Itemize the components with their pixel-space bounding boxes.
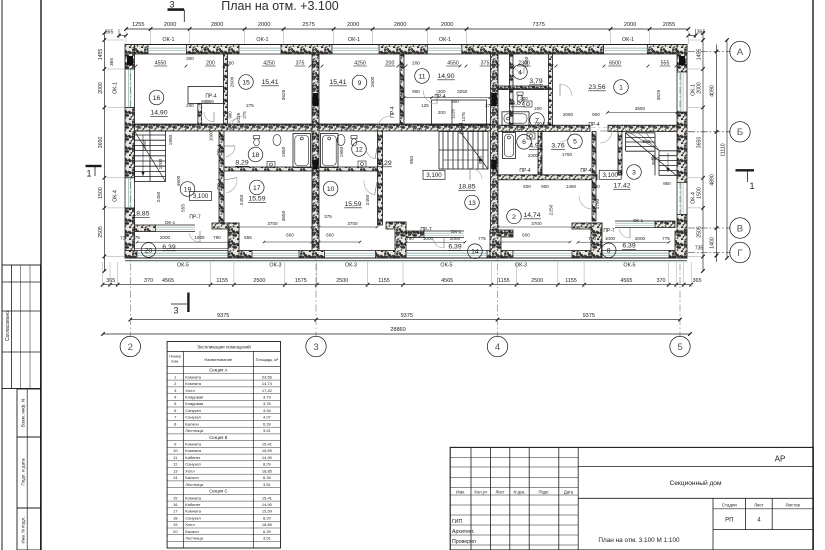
svg-text:Санузел: Санузел xyxy=(185,462,201,467)
svg-text:3700: 3700 xyxy=(531,221,542,226)
wall B horizontal xyxy=(319,124,491,131)
wall between rooms 12/10 xyxy=(319,167,378,171)
bathtub section C xyxy=(293,134,311,168)
svg-text:14: 14 xyxy=(173,475,178,480)
title block xyxy=(450,447,813,550)
svg-text:15,41: 15,41 xyxy=(261,79,278,86)
room 8 loggia xyxy=(601,243,616,258)
storeroom 4 bottom wall xyxy=(498,86,552,90)
svg-text:Кабинет: Кабинет xyxy=(185,455,200,460)
svg-text:Кабинет: Кабинет xyxy=(185,502,200,507)
room 16 kabinet xyxy=(149,90,164,105)
svg-text:N док.: N док. xyxy=(514,489,526,494)
svg-text:План на отм. 3.100 М 1:100: План на отм. 3.100 М 1:100 xyxy=(598,537,680,544)
closet room 11 xyxy=(432,100,487,125)
svg-text:365: 365 xyxy=(109,58,115,66)
svg-text:Санузел: Санузел xyxy=(185,415,201,420)
svg-text:790: 790 xyxy=(588,236,596,241)
svg-text:3,79: 3,79 xyxy=(529,78,542,85)
svg-text:20: 20 xyxy=(173,529,178,534)
svg-text:3625: 3625 xyxy=(656,89,662,100)
right exterior wall piers xyxy=(677,45,687,73)
room 12 sanuzel xyxy=(352,142,367,157)
room 18 sanuzel xyxy=(248,147,263,162)
svg-text:1155: 1155 xyxy=(565,278,577,284)
svg-text:3625: 3625 xyxy=(281,89,287,100)
svg-text:3: 3 xyxy=(313,342,318,353)
explication table xyxy=(167,342,280,549)
svg-text:18,85: 18,85 xyxy=(262,468,273,473)
svg-text:4890: 4890 xyxy=(710,174,716,186)
svg-text:3: 3 xyxy=(169,0,174,10)
room 3 hall xyxy=(627,165,642,180)
svg-text:2450: 2450 xyxy=(365,194,371,205)
svg-text:2,30: 2,30 xyxy=(543,121,552,126)
elevation boxes 3.100 xyxy=(190,192,212,201)
svg-text:4250: 4250 xyxy=(354,61,366,67)
svg-text:900: 900 xyxy=(592,112,600,117)
svg-text:Секционный дом: Секционный дом xyxy=(669,479,721,487)
door room11 xyxy=(423,90,437,104)
svg-text:200: 200 xyxy=(520,96,528,101)
svg-text:ОК-3: ОК-3 xyxy=(345,262,357,268)
top sub dims 365 xyxy=(119,35,126,37)
door hall C to 17 xyxy=(226,178,237,193)
svg-text:600: 600 xyxy=(523,184,531,189)
svg-text:Санузел: Санузел xyxy=(185,408,201,413)
bottom overall dim 28860 xyxy=(103,333,690,335)
svg-text:3650: 3650 xyxy=(697,137,703,149)
svg-text:14,90: 14,90 xyxy=(437,73,454,80)
svg-text:Подп.: Подп. xyxy=(538,489,549,494)
svg-text:28860: 28860 xyxy=(390,327,406,333)
svg-text:Кладовая: Кладовая xyxy=(185,395,203,400)
top dimension chain xyxy=(126,28,688,30)
svg-text:Лестница: Лестница xyxy=(185,536,203,541)
building bottom slab edge xyxy=(125,257,687,259)
svg-text:Лист: Лист xyxy=(496,489,505,494)
svg-text:ПР-7: ПР-7 xyxy=(420,227,432,233)
svg-text:1000: 1000 xyxy=(423,236,434,241)
svg-text:ГИП: ГИП xyxy=(452,519,463,525)
hall C partition xyxy=(219,131,224,225)
svg-text:Балкон: Балкон xyxy=(185,475,198,480)
svg-text:Проверил: Проверил xyxy=(452,539,476,545)
svg-text:200: 200 xyxy=(477,124,485,129)
svg-text:4565: 4565 xyxy=(441,278,453,284)
svg-text:900: 900 xyxy=(466,47,474,52)
svg-text:3550: 3550 xyxy=(635,106,646,111)
svg-text:125: 125 xyxy=(516,126,524,131)
svg-text:2050: 2050 xyxy=(563,112,574,117)
grid bubbles right A B V G xyxy=(730,41,750,61)
party wall section C/B xyxy=(312,54,319,251)
svg-text:4090: 4090 xyxy=(710,85,716,97)
svg-text:775: 775 xyxy=(132,235,140,240)
svg-text:1155: 1155 xyxy=(378,278,390,284)
svg-text:2: 2 xyxy=(128,342,133,353)
room 20 loggia xyxy=(141,243,156,258)
svg-text:ПР-4: ПР-4 xyxy=(519,168,531,174)
svg-text:6,39: 6,39 xyxy=(622,243,635,250)
svg-text:3800: 3800 xyxy=(400,89,406,100)
door room16 closet xyxy=(204,112,214,122)
loggia B side blocks xyxy=(386,222,406,229)
svg-text:Комната: Комната xyxy=(185,374,201,379)
corner riser top-left xyxy=(127,56,133,65)
loggia dim lines xyxy=(137,241,230,243)
svg-text:6,39: 6,39 xyxy=(263,421,272,426)
svg-text:Взам. инф. N: Взам. инф. N xyxy=(21,399,26,427)
vent shaft B/A lower xyxy=(491,160,497,170)
svg-text:2000: 2000 xyxy=(635,236,646,241)
interior dim lines bottom rooms xyxy=(228,226,312,228)
svg-text:15: 15 xyxy=(242,79,250,86)
svg-text:14,90: 14,90 xyxy=(150,110,167,117)
svg-text:15,41: 15,41 xyxy=(329,79,346,86)
svg-text:ПР-4: ПР-4 xyxy=(205,94,217,100)
loggia C back wall xyxy=(135,225,156,232)
svg-text:2600: 2600 xyxy=(230,76,236,87)
svg-text:555: 555 xyxy=(181,204,187,212)
svg-text:2800: 2800 xyxy=(211,22,223,28)
svg-text:3,79: 3,79 xyxy=(263,395,272,400)
svg-text:3250: 3250 xyxy=(457,89,468,94)
grid axis lines vertical xyxy=(129,46,131,337)
svg-text:Лестница: Лестница xyxy=(185,428,203,433)
svg-text:15,41: 15,41 xyxy=(262,495,273,500)
loggia B back wall xyxy=(406,231,424,238)
svg-text:200: 200 xyxy=(186,103,194,108)
stair section A xyxy=(626,132,656,134)
svg-text:1255: 1255 xyxy=(132,22,144,28)
partition bath12/room10 vs hall13 xyxy=(378,131,383,225)
svg-text:6: 6 xyxy=(522,139,526,146)
svg-text:12: 12 xyxy=(355,146,363,153)
svg-text:8,29: 8,29 xyxy=(263,515,272,520)
svg-text:1450: 1450 xyxy=(566,184,577,189)
svg-text:18: 18 xyxy=(173,515,178,520)
right extension lines xyxy=(688,39,701,41)
svg-text:Изм.: Изм. xyxy=(456,489,465,494)
svg-text:4250: 4250 xyxy=(263,61,275,67)
svg-text:РП: РП xyxy=(725,518,733,524)
door room1 xyxy=(560,84,572,96)
svg-text:ОК-5: ОК-5 xyxy=(623,262,635,268)
svg-text:1200: 1200 xyxy=(158,158,164,169)
door hall B to 10 xyxy=(364,180,375,195)
top exterior wall piers xyxy=(126,45,148,55)
svg-text:1000: 1000 xyxy=(194,235,205,240)
top extension lines xyxy=(125,31,127,44)
svg-text:3650: 3650 xyxy=(281,210,287,221)
left extension lines xyxy=(107,39,124,41)
svg-text:ОК-1: ОК-1 xyxy=(633,218,644,223)
svg-text:12: 12 xyxy=(173,462,178,467)
svg-text:1: 1 xyxy=(619,84,623,91)
svg-text:200: 200 xyxy=(226,61,234,66)
svg-text:2500: 2500 xyxy=(253,278,265,284)
svg-text:ОК-1: ОК-1 xyxy=(691,84,697,96)
svg-text:19: 19 xyxy=(184,186,192,193)
loggia C floor lines xyxy=(135,248,229,250)
toilet B xyxy=(351,136,357,146)
svg-text:11110: 11110 xyxy=(721,143,727,156)
svg-text:23,56: 23,56 xyxy=(588,84,605,91)
svg-text:16: 16 xyxy=(153,95,161,102)
svg-text:15,41: 15,41 xyxy=(262,442,273,447)
svg-text:1155: 1155 xyxy=(498,278,510,284)
svg-text:775: 775 xyxy=(662,236,670,241)
svg-text:275: 275 xyxy=(246,103,254,108)
svg-text:9375: 9375 xyxy=(401,313,413,319)
room 14 loggia xyxy=(468,244,483,259)
svg-text:200: 200 xyxy=(438,110,446,115)
svg-text:8,29: 8,29 xyxy=(235,160,248,167)
svg-text:2000: 2000 xyxy=(441,22,453,28)
vent shaft party wall B/A xyxy=(491,93,497,106)
grid bubbles bottom 2 3 4 5 xyxy=(120,336,140,356)
closet room 16 xyxy=(188,87,224,104)
svg-text:10: 10 xyxy=(173,448,178,453)
room 7 sanuzel xyxy=(530,113,545,128)
svg-text:15,59: 15,59 xyxy=(344,201,361,208)
svg-text:ПР-7: ПР-7 xyxy=(603,228,615,234)
svg-text:125: 125 xyxy=(421,103,429,108)
svg-text:365: 365 xyxy=(106,278,115,284)
svg-text:3650: 3650 xyxy=(98,137,104,149)
svg-text:ПР-4: ПР-4 xyxy=(580,168,592,174)
svg-text:950: 950 xyxy=(409,156,415,164)
svg-text:375: 375 xyxy=(324,214,332,219)
svg-text:ОК-4: ОК-4 xyxy=(691,192,697,204)
svg-text:Листов: Листов xyxy=(786,502,801,507)
svg-text:1500: 1500 xyxy=(697,187,703,199)
svg-text:1225: 1225 xyxy=(451,109,456,119)
svg-text:5: 5 xyxy=(573,139,577,146)
svg-text:2000: 2000 xyxy=(164,22,176,28)
door room15 xyxy=(231,116,243,128)
svg-text:1100: 1100 xyxy=(412,127,422,132)
svg-text:ОК-1: ОК-1 xyxy=(256,37,268,43)
sink B xyxy=(358,161,366,167)
svg-text:200: 200 xyxy=(386,61,395,67)
room 11 kabinet xyxy=(415,69,430,84)
door loggia C xyxy=(189,233,200,242)
svg-text:ОК-1: ОК-1 xyxy=(622,37,634,43)
right dimension chain 1 xyxy=(702,33,704,271)
svg-text:Г: Г xyxy=(737,248,743,259)
svg-text:275: 275 xyxy=(242,111,247,119)
svg-text:1650: 1650 xyxy=(524,56,530,67)
svg-text:3700: 3700 xyxy=(347,221,358,226)
svg-text:15: 15 xyxy=(173,495,178,500)
svg-text:2450: 2450 xyxy=(156,191,162,202)
svg-text:17: 17 xyxy=(173,509,178,514)
svg-text:900: 900 xyxy=(201,99,209,104)
approvals box (soglasovano) xyxy=(2,265,41,389)
svg-text:900: 900 xyxy=(451,99,459,104)
left dimension chain xyxy=(103,33,105,271)
svg-text:11: 11 xyxy=(418,73,425,80)
svg-text:пом.: пом. xyxy=(171,360,179,364)
bottom dimension chain row 2 (9375) xyxy=(130,319,680,321)
svg-text:900: 900 xyxy=(541,184,549,189)
loggia C side block xyxy=(212,223,239,229)
svg-text:А: А xyxy=(737,47,744,58)
svg-text:23,56: 23,56 xyxy=(262,374,273,379)
stair section C xyxy=(135,131,166,182)
svg-text:3,51: 3,51 xyxy=(263,428,272,433)
svg-text:14,90: 14,90 xyxy=(262,455,273,460)
door room5 xyxy=(560,131,571,142)
svg-text:950: 950 xyxy=(643,139,651,144)
svg-text:Инв. N подл.: Инв. N подл. xyxy=(21,516,26,543)
top windows OK-1 xyxy=(148,44,187,46)
svg-text:2450: 2450 xyxy=(239,194,245,205)
svg-text:Согласовано: Согласовано xyxy=(5,311,11,341)
svg-text:1500: 1500 xyxy=(98,187,104,199)
svg-text:18,85: 18,85 xyxy=(132,211,149,218)
svg-text:900: 900 xyxy=(227,111,232,119)
wall between rooms 18/17 xyxy=(224,167,312,171)
svg-text:ОК-3: ОК-3 xyxy=(515,262,527,268)
svg-text:2055: 2055 xyxy=(663,22,675,28)
svg-text:ОК-1: ОК-1 xyxy=(165,220,176,225)
svg-text:2500: 2500 xyxy=(336,278,348,284)
svg-text:600: 600 xyxy=(286,233,294,238)
svg-text:2000: 2000 xyxy=(160,235,171,240)
svg-text:15,59: 15,59 xyxy=(262,448,273,453)
toilet A room 7 xyxy=(517,92,523,102)
svg-text:4,07: 4,07 xyxy=(511,100,524,107)
sink A room 6 xyxy=(527,133,535,139)
svg-text:8: 8 xyxy=(607,248,611,255)
svg-text:1950: 1950 xyxy=(281,146,287,157)
drawing frame left line xyxy=(40,0,42,550)
room 1 bottom wall xyxy=(498,125,590,131)
door room2 xyxy=(579,196,592,209)
svg-text:Секция С: Секция С xyxy=(209,489,227,494)
svg-text:ОК-1: ОК-1 xyxy=(439,37,451,43)
svg-text:6,39: 6,39 xyxy=(162,244,175,251)
svg-text:2000: 2000 xyxy=(347,22,359,28)
svg-text:2000: 2000 xyxy=(624,22,636,28)
loggia glazing OK-5 xyxy=(137,250,230,252)
svg-text:ПР-4: ПР-4 xyxy=(588,122,600,128)
svg-text:7375: 7375 xyxy=(532,22,544,28)
svg-text:Балкон: Балкон xyxy=(185,421,198,426)
svg-text:ОК-1: ОК-1 xyxy=(348,37,360,43)
svg-text:9: 9 xyxy=(358,80,362,87)
svg-text:Холл: Холл xyxy=(185,522,195,527)
svg-text:1575: 1575 xyxy=(295,278,307,284)
room 6 sanuzel xyxy=(517,135,532,150)
svg-text:3: 3 xyxy=(632,169,636,176)
svg-text:1: 1 xyxy=(86,169,91,179)
bottom extension lines xyxy=(102,262,104,287)
bathtub section B xyxy=(321,134,339,168)
toilet C xyxy=(254,136,260,146)
svg-text:1950: 1950 xyxy=(142,139,148,150)
svg-text:Б: Б xyxy=(737,127,743,138)
svg-text:ПР-4: ПР-4 xyxy=(218,144,224,156)
bathtub A room 6 xyxy=(503,133,516,159)
door entry A xyxy=(470,168,482,179)
svg-text:2500: 2500 xyxy=(531,278,543,284)
svg-text:14: 14 xyxy=(471,249,479,256)
left wall windows xyxy=(124,69,126,107)
svg-text:900: 900 xyxy=(592,184,600,189)
svg-text:Балкон: Балкон xyxy=(185,529,198,534)
room 17 komnata xyxy=(249,180,264,195)
svg-text:4,94: 4,94 xyxy=(529,143,542,150)
svg-text:19: 19 xyxy=(173,522,178,527)
svg-text:375: 375 xyxy=(296,61,305,67)
svg-text:3,51: 3,51 xyxy=(263,536,272,541)
svg-text:3,100: 3,100 xyxy=(193,193,209,200)
room 10 komnata xyxy=(323,181,338,196)
door room9 xyxy=(378,116,390,128)
svg-text:АР: АР xyxy=(775,455,786,464)
room 5 kladovaya xyxy=(568,134,583,149)
svg-text:Комната: Комната xyxy=(185,495,201,500)
svg-text:370: 370 xyxy=(144,278,153,284)
svg-text:1155: 1155 xyxy=(216,278,228,284)
grid line B inside plan xyxy=(135,127,313,129)
svg-text:600: 600 xyxy=(326,233,334,238)
hall 3 partition xyxy=(592,132,596,222)
svg-text:4,07: 4,07 xyxy=(263,415,272,420)
svg-text:1000: 1000 xyxy=(605,236,616,241)
svg-text:3: 3 xyxy=(173,306,178,316)
svg-text:3,76: 3,76 xyxy=(551,143,564,150)
svg-text:1000: 1000 xyxy=(209,131,214,141)
svg-text:ПР-4: ПР-4 xyxy=(218,178,224,190)
room 9 komnata xyxy=(352,75,367,90)
svg-text:5: 5 xyxy=(677,342,682,353)
svg-text:Секция А: Секция А xyxy=(209,368,227,373)
svg-text:6,39: 6,39 xyxy=(263,475,272,480)
svg-text:2000: 2000 xyxy=(450,236,461,241)
svg-text:3,100: 3,100 xyxy=(602,172,618,179)
svg-text:200: 200 xyxy=(534,121,542,126)
room 13 hall xyxy=(465,195,480,210)
svg-text:10: 10 xyxy=(327,186,335,193)
bottom wall piers xyxy=(125,251,137,259)
svg-text:375: 375 xyxy=(344,126,352,131)
svg-text:4,94: 4,94 xyxy=(263,408,272,413)
bath 6/5 partition xyxy=(538,132,542,175)
vzam inv box xyxy=(17,389,41,437)
grid axis lines horizontal xyxy=(688,51,731,53)
door hall B to 12 xyxy=(366,148,375,159)
corner riser top-right xyxy=(679,56,685,65)
svg-text:6500: 6500 xyxy=(609,61,621,67)
svg-text:Экспликация помещений: Экспликация помещений xyxy=(197,343,251,349)
svg-text:950: 950 xyxy=(663,181,671,186)
bidet C xyxy=(273,135,281,146)
podp i data box xyxy=(17,437,41,508)
room 2 komnata xyxy=(507,209,522,224)
svg-text:Холл: Холл xyxy=(185,468,195,473)
svg-text:Комната: Комната xyxy=(185,509,201,514)
bottom dimension chain row 1 xyxy=(103,284,692,286)
svg-text:9375: 9375 xyxy=(583,313,595,319)
room 1 komnata xyxy=(614,80,629,95)
svg-text:Кол.уч: Кол.уч xyxy=(474,489,487,494)
svg-text:200: 200 xyxy=(226,126,234,131)
